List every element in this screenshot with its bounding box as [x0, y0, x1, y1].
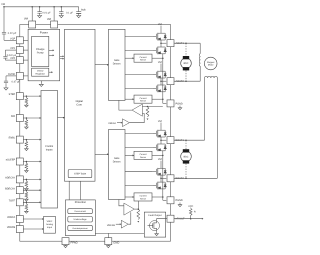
ground row 7 pulldown ground — [25, 210, 29, 213]
pin VREFB — [16, 226, 23, 233]
pin BDECAY — [16, 187, 23, 194]
junction BDC B top junction — [185, 139, 187, 141]
pin nSLEEP — [16, 158, 23, 165]
resistor R pulldown row 7 — [25, 204, 28, 210]
svg-text:DVDD: DVDD — [8, 73, 15, 76]
transistor open-drain fault FET — [148, 221, 160, 231]
wire VREFB in wire — [116, 223, 122, 225]
wire stub to VM pin A — [31, 7, 33, 21]
wire VCP wire — [4, 39, 16, 41]
wire Core-GateDriveA link — [95, 64, 109, 66]
op-amp ITRIP comparator B — [124, 203, 134, 215]
wire comparator B input from GDB — [119, 200, 124, 206]
pin DIR — [16, 115, 23, 122]
svg-text:Current: Current — [140, 153, 147, 156]
svg-text:Drivers: Drivers — [113, 160, 122, 163]
wire comparator A out to GDA — [119, 100, 132, 110]
wire input row 4 — [23, 161, 41, 163]
junction row 5 tap — [26, 179, 28, 181]
arrowhead VREFB in arrow — [120, 223, 122, 225]
junction CS B2 sense dot — [162, 196, 164, 198]
wire fault FET source — [156, 230, 158, 232]
junction row 3 tap — [26, 139, 28, 141]
arrowhead VREFA arrow — [42, 218, 44, 220]
ground fault output ground — [155, 233, 159, 236]
junction rail-cap1 — [39, 6, 41, 8]
block Control Inputs — [41, 91, 58, 209]
wire sense rail B — [162, 151, 164, 201]
junction comp A res tap — [147, 106, 149, 108]
svg-text:BDC: BDC — [184, 62, 189, 65]
wire CP1 cap lead — [4, 50, 6, 56]
wire Power to core 2 — [60, 58, 64, 60]
svg-text:BDC: BDC — [184, 155, 189, 158]
arrowhead input row 1 arrow — [40, 95, 42, 97]
IC outline (driver device boundary) — [20, 25, 171, 242]
op-amp VREFA buffer — [122, 119, 129, 127]
svg-text:Power: Power — [40, 31, 48, 35]
wire Core-Protection link1 — [68, 181, 70, 200]
wire C6 to gnd lead — [5, 83, 7, 87]
arrowhead VREFB arrow — [42, 228, 44, 230]
ground PGND ground y103.4 — [178, 107, 182, 110]
wire PGND A wire — [163, 102, 167, 104]
pin VCP — [16, 37, 23, 44]
wire out wire A2 — [161, 80, 166, 82]
pin PGND — [167, 100, 174, 107]
block Digital Core — [65, 29, 96, 181]
ground row 6 pulldown ground — [25, 198, 29, 201]
svg-text:0.1 µF: 0.1 µF — [66, 12, 73, 15]
wire dashed BDC A feed bottom — [185, 70, 187, 81]
svg-text:PPAD: PPAD — [71, 241, 78, 244]
wire dashed BDC B feed bottom — [185, 164, 187, 179]
capacitor C2 0.1uF — [59, 7, 63, 15]
wire pullup bottom lead — [190, 215, 192, 218]
wire CS A1 to sense rail — [152, 57, 163, 59]
junction Core-GDB dot — [107, 154, 109, 156]
wire row 7 pulldown lead — [25, 202, 27, 204]
ground C6 ground — [4, 87, 8, 90]
wire PGND gnd stub y103.4 — [179, 106, 181, 107]
svg-text:Sense: Sense — [140, 59, 147, 62]
wire input row 6 — [23, 189, 41, 191]
svg-text:Current: Current — [140, 97, 147, 100]
svg-text:VCP: VCP — [10, 37, 15, 40]
wire CP1 to Power — [23, 49, 28, 51]
svg-text:Pump: Pump — [37, 52, 44, 55]
transistor QB2 low-side (NMOS with body diode) — [153, 182, 167, 190]
wire Control-Core link — [58, 117, 65, 119]
wire sense rail A — [162, 54, 164, 104]
junction BDC A bottom junction — [185, 80, 187, 82]
resistor R DAC A — [146, 107, 149, 118]
wire CS B1 to sense rail — [152, 154, 163, 156]
svg-text:Undervoltage: Undervoltage — [74, 218, 88, 221]
pin TOFF — [16, 199, 23, 206]
wire AOUT1 wire — [174, 42, 200, 44]
wire GD to CS B2 — [125, 196, 134, 198]
wire out wire A1 — [161, 42, 166, 44]
capacitor C1 0.01uF — [37, 7, 41, 15]
ground row 4 pulldown ground — [25, 170, 29, 173]
wire input row 5 — [23, 178, 41, 180]
capacitor C4 VCP 0.22uF — [2, 32, 6, 35]
wire DVDD reg out — [49, 71, 53, 73]
op-amp VREFB buffer — [121, 220, 128, 228]
resistor R pulldown row 1 — [25, 98, 28, 104]
wire nFAULT wire — [174, 218, 203, 220]
wire pullup top lead — [190, 207, 192, 210]
svg-text:ENBL: ENBL — [9, 137, 16, 140]
pin VM (B) — [51, 21, 58, 28]
resistor R pulldown row 3 — [25, 141, 28, 147]
wire gate wire HS B1 — [125, 133, 153, 135]
svg-text:BOUT1: BOUT1 — [176, 139, 185, 142]
block Undervoltage — [68, 217, 93, 223]
pin PPAD — [62, 238, 69, 245]
transistor QA1 low-side (NMOS with body diode) — [153, 47, 167, 55]
svg-text:AOUT2: AOUT2 — [176, 80, 185, 83]
junction BDC B bottom junction — [185, 178, 187, 180]
arrowhead CS B1 arrow — [133, 154, 135, 156]
pin ENBL — [16, 136, 23, 143]
svg-text:VREFA: VREFA — [108, 122, 116, 125]
wire C4 to VCP lead — [3, 35, 5, 40]
pin VM (A) — [29, 21, 36, 28]
block Current Sense B1 — [134, 151, 152, 159]
wire gate wire LS B1 — [125, 146, 153, 148]
pin ADECAY — [16, 176, 23, 183]
svg-text:DIR: DIR — [11, 115, 16, 118]
junction VM rail corner — [3, 6, 5, 8]
svg-text:Analog: Analog — [46, 223, 54, 226]
svg-text:VREF: VREF — [47, 220, 53, 223]
wire VREFB wire — [23, 228, 43, 230]
wire VREFB buffer out — [128, 212, 131, 224]
wire Protection-FaultOutput link — [95, 232, 144, 234]
ground PPAD ground — [64, 245, 68, 248]
svg-text:CP1: CP1 — [10, 47, 15, 50]
wire gate wire LS A1 — [125, 49, 153, 51]
arrowhead VREFA in arrow — [121, 122, 123, 124]
wire comp B to CS B2 — [137, 201, 139, 209]
ground row 3 pulldown ground — [25, 148, 29, 151]
svg-text:Digital: Digital — [76, 100, 84, 103]
wire input row 3 — [23, 139, 41, 141]
block Power — [28, 29, 60, 81]
wire gate wire HS B2 — [125, 171, 153, 173]
svg-text:TOFF: TOFF — [9, 199, 16, 202]
svg-text:0.01 µF: 0.01 µF — [42, 12, 51, 15]
wire out wire B2 — [161, 177, 166, 179]
block Overcurrent — [68, 209, 93, 214]
arrowhead input row 5 arrow — [40, 178, 42, 180]
block Current Sense A2 — [134, 95, 152, 103]
wire input row 1 — [23, 95, 41, 97]
arrowhead input row 2 arrow — [40, 117, 42, 119]
wire GD to CS A1 — [125, 57, 134, 59]
wire VM stub A1 — [160, 26, 162, 34]
svg-text:Regulator: Regulator — [35, 72, 45, 75]
wire VREFA wire — [23, 218, 43, 220]
wire input row 7 — [23, 201, 41, 203]
svg-text:STEP: STEP — [9, 93, 16, 96]
arrowhead input row 4 arrow — [40, 161, 42, 163]
junction CS A2 sense dot — [162, 98, 164, 100]
junction CS B1 sense dot — [162, 155, 164, 157]
svg-text:Drivers: Drivers — [113, 62, 122, 65]
svg-text:Fault Output: Fault Output — [148, 214, 161, 217]
wire CP out arrow2 — [49, 54, 54, 56]
op-amp ITRIP comparator A — [132, 104, 142, 116]
inductor winding B (stepper phase B) — [205, 76, 218, 178]
wire row 4 pulldown lead — [25, 162, 27, 164]
arrowhead R DAC A arrow — [147, 119, 149, 121]
wire VM stub B1 — [160, 123, 162, 131]
wire gate wire HS A2 — [125, 74, 153, 76]
svg-text:Input: Input — [47, 226, 52, 229]
junction row 2 tap — [26, 117, 28, 119]
wire stub to VM pin B — [53, 7, 55, 21]
ground PGND ground y200.3 — [178, 204, 182, 207]
svg-text:Sense: Sense — [140, 197, 147, 200]
wire VM stub A2 — [160, 64, 162, 72]
wire CS B2 to sense rail — [152, 196, 163, 198]
wire GD to CS B1 — [125, 154, 134, 156]
block Overtemperature — [68, 225, 93, 230]
svg-text:BDECAY: BDECAY — [5, 187, 15, 190]
svg-text:STEP Table: STEP Table — [74, 173, 87, 176]
wire AOUT2 wire — [174, 80, 200, 82]
wire BOUT2 wire — [174, 177, 217, 179]
svg-text:VM: VM — [158, 61, 162, 64]
wire PGND B wire — [163, 199, 167, 201]
ground row 2 pulldown ground — [25, 126, 29, 129]
junction pullup junction — [190, 218, 192, 220]
svg-text:Sense: Sense — [140, 156, 147, 159]
wire BOUT1 wire — [174, 139, 205, 141]
motor BDC B — [181, 149, 192, 163]
capacitor C3 bulk — [76, 7, 81, 15]
svg-text:Core: Core — [76, 104, 82, 107]
wire CP1 wire — [5, 49, 16, 51]
block Gate Drivers B — [109, 130, 126, 200]
resistor R pulldown row 4 — [25, 163, 28, 169]
svg-text:Overcurrent: Overcurrent — [74, 210, 86, 213]
wire Power gnd stub — [40, 81, 42, 83]
junction row 7 tap — [26, 202, 28, 204]
svg-text:Bulk: Bulk — [81, 9, 86, 12]
junction out dot A2 — [160, 80, 162, 82]
motor stepper circle — [204, 57, 217, 70]
svg-text:0.47 µF: 0.47 µF — [12, 80, 21, 83]
junction row 1 tap — [26, 95, 28, 97]
transistor QB2 high-side (NMOS with body diode) — [153, 168, 167, 176]
junction rail-cap2 — [61, 6, 63, 8]
wire dashed BDC B feed top — [185, 140, 187, 149]
block Charge Pump — [32, 36, 49, 66]
junction out dot B1 — [160, 139, 162, 141]
wire CP2 wire — [5, 59, 16, 61]
wire gate wire HS A1 — [125, 36, 153, 38]
block Gate Drivers A — [109, 29, 126, 100]
svg-text:PGND: PGND — [176, 199, 183, 202]
resistor R pulldown row 2 — [25, 120, 28, 126]
svg-text:Motor: Motor — [208, 64, 214, 67]
block VREF Analog Input — [44, 216, 56, 233]
block Protection — [66, 200, 96, 236]
svg-text:BOUT2: BOUT2 — [176, 177, 185, 180]
svg-text:GND: GND — [113, 241, 119, 244]
wire dashed BDC A feed top — [185, 43, 187, 56]
svg-text:0.022 µF: 0.022 µF — [7, 54, 17, 57]
wire VCP to Power — [23, 39, 28, 41]
wire CP out arrow1 — [49, 49, 54, 51]
resistor R DAC B — [137, 209, 140, 219]
arrowhead DVDD reg arrow — [51, 71, 53, 73]
arrowhead CS A1 arrow — [133, 57, 135, 59]
block Fault Output — [144, 212, 165, 237]
wire row 1 pulldown lead — [25, 96, 27, 98]
arrowhead R DAC B arrow — [137, 221, 139, 223]
wire CS A2 to sense rail — [152, 98, 163, 100]
pin CP1 — [16, 47, 23, 54]
pin BOUT2 — [167, 175, 174, 182]
svg-text:nSLEEP: nSLEEP — [6, 159, 16, 162]
svg-text:Overtemperature: Overtemperature — [73, 227, 89, 230]
wire out node A1 — [160, 40, 162, 47]
svg-text:VREFB: VREFB — [107, 224, 115, 227]
arrowhead input row 7 arrow — [40, 201, 42, 203]
transistor QB1 high-side (NMOS with body diode) — [153, 130, 167, 138]
resistor R pulldown row 5 — [25, 181, 28, 187]
ground C1 ground — [38, 14, 42, 17]
wire GND stub — [107, 233, 109, 237]
junction row 6 tap — [26, 189, 28, 191]
junction rail-pinB — [53, 6, 55, 8]
capacitor C5 0.022uF — [3, 56, 7, 58]
resistor R pullup — [189, 208, 192, 215]
ground C3 ground — [77, 14, 81, 17]
svg-text:Current: Current — [140, 195, 147, 198]
wire out node B2 — [160, 175, 162, 182]
wire CP2 to Power — [23, 59, 28, 61]
ground row 5 pulldown ground — [25, 187, 29, 190]
block STEP Table — [68, 170, 92, 178]
arrowhead input row 6 arrow — [40, 189, 42, 191]
junction row 4 tap — [26, 161, 28, 163]
wire VM stub B2 — [160, 161, 162, 169]
pin AOUT1 — [167, 40, 174, 47]
svg-text:Protection: Protection — [75, 201, 87, 204]
arrowhead CP arrow2 — [53, 54, 55, 56]
junction out dot A1 — [160, 42, 162, 44]
svg-text:0.22 µF: 0.22 µF — [8, 32, 17, 35]
svg-text:VM: VM — [158, 158, 162, 161]
ground row 1 pulldown ground — [25, 104, 29, 107]
wire CP2 cap lead — [4, 58, 6, 60]
wire fault FET drain to nFAULT — [157, 219, 167, 221]
wire VREFA buffer out — [129, 114, 144, 123]
pin CP2 — [16, 57, 23, 64]
ground Power ground — [39, 83, 43, 86]
svg-text:ADECAY: ADECAY — [5, 177, 15, 180]
wire DVDD to Power — [23, 75, 28, 77]
arrowhead Power-core arrow2 — [63, 58, 65, 60]
motor BDC A — [181, 56, 192, 70]
transistor QA2 low-side (NMOS with body diode) — [153, 85, 167, 93]
svg-text:VM: VM — [158, 120, 162, 123]
wire gate wire LS A2 — [125, 87, 153, 89]
wire VM top rail — [4, 6, 79, 8]
capacitor C6 0.47uF — [4, 81, 8, 83]
transistor QA2 high-side (NMOS with body diode) — [153, 71, 167, 79]
wire out node B1 — [160, 137, 162, 144]
svg-text:CP2: CP2 — [10, 57, 15, 60]
wire out node A2 — [160, 78, 162, 85]
wire PGND gnd stub y200.3 — [179, 203, 181, 204]
wire input row 2 — [23, 117, 41, 119]
wire VREFA in wire — [117, 122, 122, 124]
arrowhead CS A2 arrow — [133, 98, 135, 100]
block DVDD Regulator — [32, 68, 49, 76]
svg-text:Sense: Sense — [140, 100, 147, 103]
svg-text:Current: Current — [140, 56, 147, 59]
wire Power to core 1 — [60, 55, 64, 57]
pin GND — [105, 238, 112, 245]
ground C2 ground — [59, 14, 63, 17]
pin nFAULT — [167, 215, 174, 222]
wire VM rail left drop — [3, 7, 5, 33]
wire row 6 pulldown lead — [25, 190, 27, 192]
junction BDC A top junction — [185, 42, 187, 44]
svg-text:AOUT1: AOUT1 — [176, 42, 185, 45]
pin STEP — [16, 93, 23, 100]
wire out wire B1 — [161, 139, 166, 141]
inductor winding A (stepper phase A) — [198, 43, 201, 81]
arrowhead input row 3 arrow — [40, 139, 42, 141]
wire Core-Protection link2 — [80, 181, 82, 200]
pin BOUT1 — [167, 137, 174, 144]
wire Core-GateDriveB link — [95, 153, 109, 155]
pin PGND — [167, 197, 174, 204]
pin AOUT2 — [167, 78, 174, 85]
wire row 3 pulldown lead — [25, 140, 27, 142]
junction CS A1 sense dot — [162, 57, 164, 59]
wire GD to CS A2 — [125, 98, 134, 100]
block Current Sense B2 — [134, 193, 152, 201]
ground GND ground — [106, 245, 110, 248]
wire gate wire LS B2 — [125, 185, 153, 187]
junction comp B node — [138, 208, 140, 210]
transistor QA1 high-side (NMOS with body diode) — [153, 33, 167, 41]
block Current Sense A1 — [134, 54, 152, 62]
wire comparator B out — [134, 208, 138, 210]
wire DVDD cap lead — [5, 76, 7, 81]
wire comparator A sense input — [142, 106, 162, 108]
arrowhead Power-core arrow1 — [63, 55, 65, 57]
svg-text:VREFA: VREFA — [7, 216, 16, 219]
junction Core-GDA dot — [107, 64, 109, 66]
junction out dot B2 — [160, 178, 162, 180]
svg-text:VCC: VCC — [188, 205, 193, 208]
junction Control-Core dot — [63, 117, 65, 119]
svg-text:VREFB: VREFB — [7, 226, 16, 229]
arrowhead nFAULT arrow — [202, 218, 204, 220]
wire row 5 pulldown lead — [25, 179, 27, 181]
arrowhead CP arrow1 — [53, 49, 55, 51]
